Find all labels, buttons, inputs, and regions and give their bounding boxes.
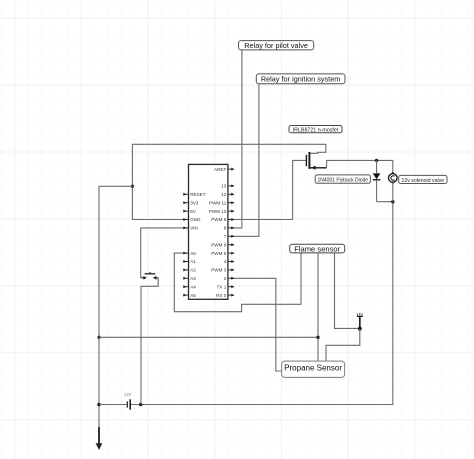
svg-text:2: 2 <box>224 276 227 281</box>
node junction on GND vertical <box>131 185 134 188</box>
wire: pin 7 up to relay ignition label <box>231 84 259 237</box>
label: Propane Sensor <box>282 361 345 377</box>
label: 12v solenoid valve <box>399 175 447 184</box>
svg-text:4: 4 <box>224 259 227 264</box>
svg-text:PWM 11: PWM 11 <box>209 200 227 205</box>
wire: mosfet source to solenoid top rail <box>327 160 393 173</box>
svg-text:A1: A1 <box>190 259 196 264</box>
wire: GND-pin net top rail to mosfet drain <box>132 144 325 219</box>
diode D1 1N4001 <box>373 160 381 201</box>
svg-text:A5: A5 <box>190 293 196 298</box>
svg-text:A4: A4 <box>190 284 196 289</box>
svg-text:5V: 5V <box>190 209 197 214</box>
svg-text:RX 0: RX 0 <box>216 293 227 298</box>
svg-text:VIN: VIN <box>190 226 198 231</box>
wire: sensor rail <box>99 336 318 338</box>
svg-text:PWM 6: PWM 6 <box>211 242 227 247</box>
svg-text:PWM 9: PWM 9 <box>211 217 227 222</box>
battery V1 12V <box>124 392 132 410</box>
wire: gnd node to propane sensor right pin <box>326 329 360 361</box>
svg-text:8: 8 <box>224 226 227 231</box>
wire: flame sensor middle pin to propane sensor <box>317 253 319 361</box>
label: Flame sensor <box>290 244 345 253</box>
node junction flame/propane/rail <box>316 336 319 339</box>
IC U1 Arduino <box>189 164 228 299</box>
svg-text:12v solenoid valve: 12v solenoid valve <box>401 178 444 184</box>
wire: junction to left ground rail <box>99 186 132 443</box>
node junction ground rail / battery rail <box>97 403 101 407</box>
svg-text:PWM 10: PWM 10 <box>209 209 227 214</box>
svg-text:Propane Sensor: Propane Sensor <box>284 363 342 372</box>
wire: PWM 9 to mosfet gate <box>231 160 306 219</box>
ground <box>96 427 103 450</box>
svg-text:RESET: RESET <box>190 192 206 197</box>
pin stubs right <box>228 168 235 297</box>
svg-text:Flame sensor: Flame sensor <box>294 244 340 253</box>
svg-text:GND: GND <box>190 217 201 222</box>
wire: pushbutton to battery junction <box>141 278 158 405</box>
wire: flame sensor right pin to gnd node <box>335 253 360 329</box>
wire: diode bottom to solenoid bottom <box>377 201 393 203</box>
label: IRLB8721 n-mosfet <box>289 126 342 134</box>
pushbutton SW1 <box>141 272 159 280</box>
label: Relay for ignition system <box>256 74 345 84</box>
label: Relay for pilot valve <box>239 41 314 50</box>
node junction ground rail / sensor rail <box>97 336 100 339</box>
svg-text:A0: A0 <box>190 251 196 256</box>
label: 1N4001 Flyback Diode <box>315 175 370 184</box>
wire: VIN to pushbutton <box>141 228 189 278</box>
wire: pin 8 up to relay pilot label <box>231 50 242 228</box>
node junction gnd <box>358 327 362 331</box>
svg-text:12: 12 <box>221 192 227 197</box>
solenoid M1 <box>389 172 398 201</box>
mosfet Q1 IRLB8721 <box>306 152 326 170</box>
wire: A0 to flame sensor left pin <box>174 253 301 312</box>
wire: pin 2 to propane sensor left pin <box>231 278 282 371</box>
svg-text:AREF: AREF <box>214 167 226 172</box>
svg-text:Relay for ignition system: Relay for ignition system <box>261 75 341 84</box>
svg-text:7: 7 <box>224 234 227 239</box>
wire: battery rail right to solenoid bottom <box>131 202 393 405</box>
ground mini GND2 <box>357 313 363 329</box>
svg-text:3V3: 3V3 <box>190 200 199 205</box>
node junction solenoid bottom <box>391 200 394 203</box>
svg-text:PWM 3: PWM 3 <box>211 268 227 273</box>
svg-text:PWM 5: PWM 5 <box>211 251 227 256</box>
svg-text:IRLB8721 n-mosfet: IRLB8721 n-mosfet <box>293 127 339 133</box>
svg-text:A2: A2 <box>190 268 196 273</box>
svg-text:1N4001 Flyback Diode: 1N4001 Flyback Diode <box>318 178 369 184</box>
svg-text:A3: A3 <box>190 276 196 281</box>
node junction battery / switch <box>139 403 143 407</box>
svg-text:13: 13 <box>221 184 227 189</box>
wire: battery rail left <box>99 404 126 406</box>
node junction diode top <box>375 159 378 162</box>
svg-text:Relay for pilot valve: Relay for pilot valve <box>244 41 308 50</box>
svg-text:12V: 12V <box>124 392 132 397</box>
pin stubs left <box>183 193 188 297</box>
svg-text:TX 1: TX 1 <box>217 284 227 289</box>
